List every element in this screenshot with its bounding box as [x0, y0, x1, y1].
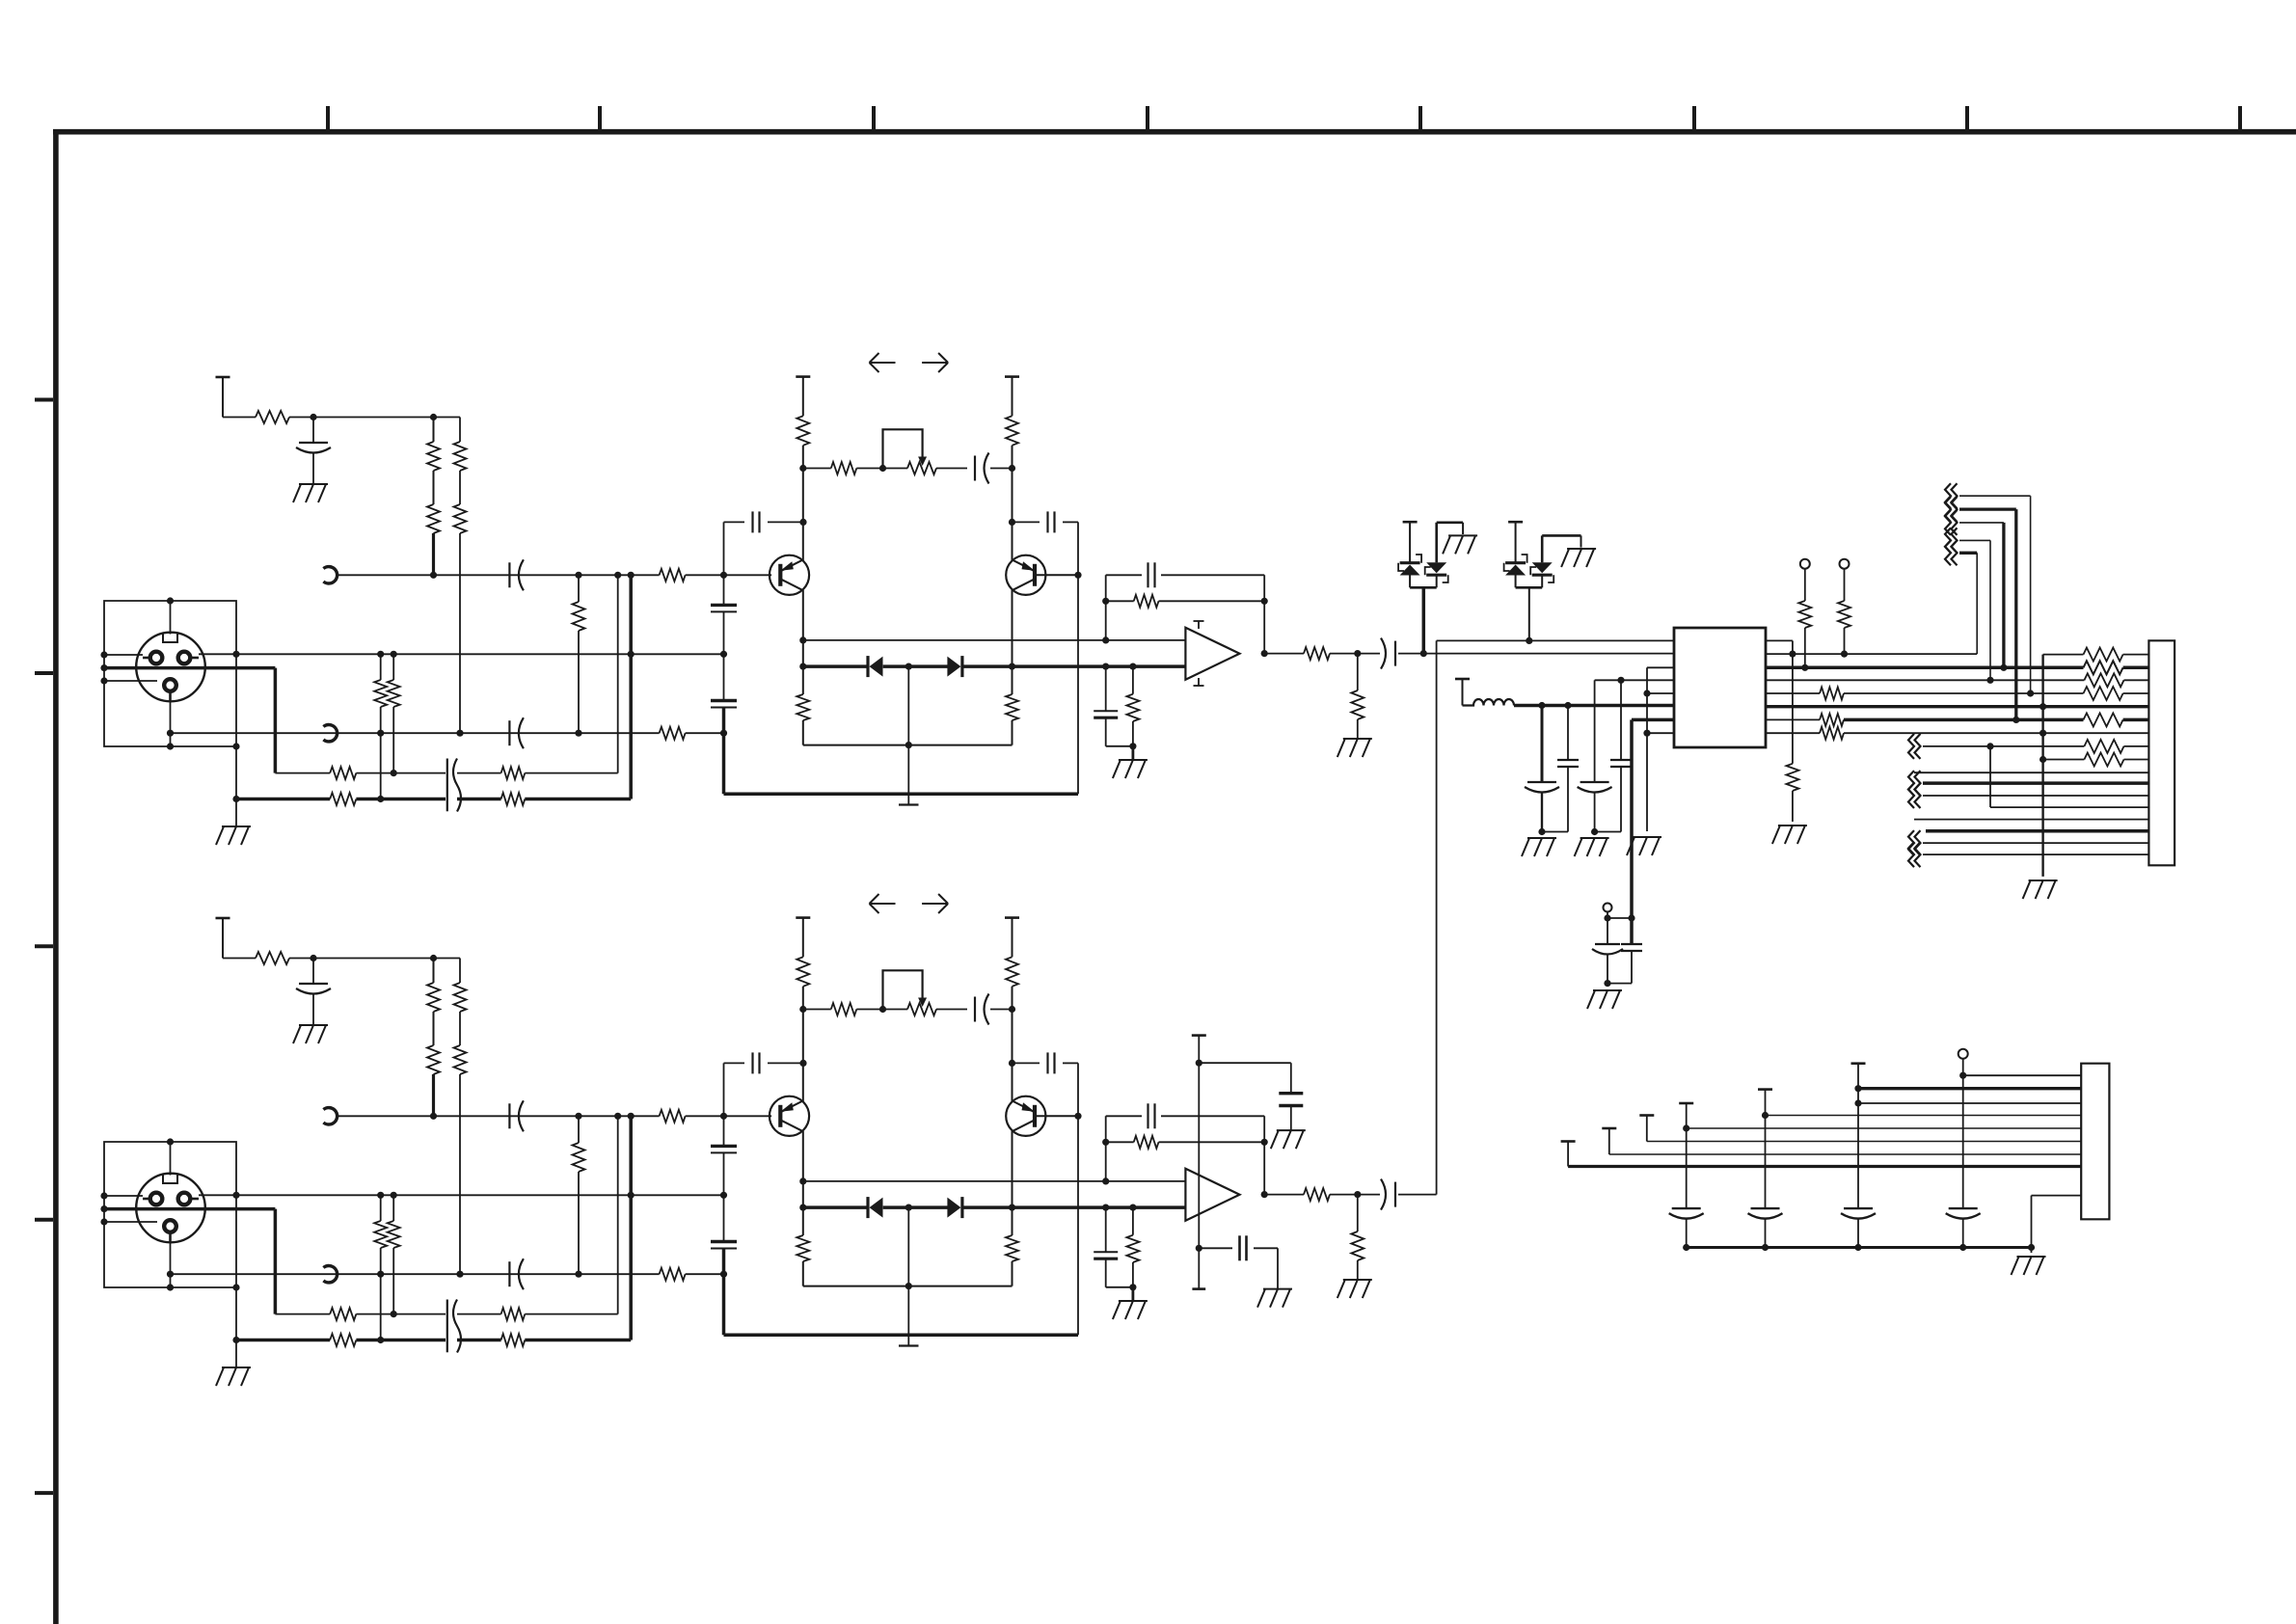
- wire out a (channel 1): [1264, 653, 1304, 655]
- resistor R-rowD-1 (channel 1): [330, 793, 356, 805]
- wire row705 connector: [2124, 679, 2149, 681]
- junction Q2 diode row (channel 2): [1009, 1204, 1015, 1211]
- wire row C right (channel 1): [525, 772, 617, 774]
- wire J2-5 to bus: [1765, 1219, 1767, 1248]
- resistor R-base (channel 1): [660, 569, 686, 582]
- junction fb left collector (channel 2): [799, 1060, 806, 1067]
- junction shield row D (channel 1): [232, 796, 239, 802]
- wire diode row c (thick) (channel 2): [962, 1205, 1106, 1209]
- wire TP3 link: [1607, 917, 1632, 919]
- offpage chevron top-right 2: [1945, 497, 1958, 522]
- capacitor C-J2-tp (polarized): [1946, 1208, 1981, 1219]
- wire opamp minus row (thick) (channel 1): [1106, 664, 1186, 668]
- junction fb res right (channel 2): [1261, 1139, 1268, 1146]
- XLR notch (channel 1): [163, 635, 177, 643]
- junction cold row phantom (channel 2): [456, 1271, 463, 1278]
- supply T J2-2: [1602, 1127, 1616, 1130]
- wire diff bottom rail (thick) (channel 2): [724, 1333, 1079, 1337]
- wire phantom R chain a (channel 2): [433, 959, 435, 984]
- capacitor C-sup1 (polarized): [1525, 782, 1559, 793]
- wire phantom node (channel 1): [289, 417, 460, 419]
- wire trim row c (channel 1): [936, 468, 967, 470]
- wire cold row left (channel 1): [171, 732, 660, 734]
- resistor R-fb (channel 1): [1134, 595, 1159, 608]
- frame ruler tick left 5: [35, 1491, 53, 1495]
- wire trim row b (channel 1): [856, 468, 907, 470]
- wire TP2 leg a: [1844, 569, 1846, 601]
- wire J2 row 4: [1687, 1127, 2082, 1129]
- capacitor C-dual curved plate (channel 2): [453, 1300, 461, 1353]
- wire J2-3 vert: [1646, 1116, 1648, 1142]
- wire bias join (channel 2): [1106, 1286, 1133, 1288]
- wire J2 gnd vert: [2031, 1196, 2033, 1253]
- wire bias res b (channel 1): [1132, 721, 1134, 746]
- transistor Q2 (channel 1): [1006, 555, 1045, 595]
- junction pulldown row: [1789, 651, 1796, 658]
- junction pin1 box edge (channel 1): [100, 651, 107, 658]
- wire J2 gnd stub row: [2032, 1195, 2082, 1197]
- wire row 719 b: [1844, 692, 2084, 694]
- XLR pin2 stub (channel 2): [190, 1198, 199, 1201]
- junction base row capchain (channel 1): [720, 572, 727, 579]
- wire out b (channel 2): [1330, 1194, 1380, 1196]
- junction TP3 b: [1628, 914, 1634, 921]
- wire J2-4 to bus: [1686, 1219, 1688, 1248]
- wire Q2 base (channel 1): [1035, 574, 1078, 576]
- junction shield row D (channel 2): [232, 1337, 239, 1343]
- capacitor C-dec1 (opamp2): [1279, 1094, 1303, 1106]
- wire opamp2 vplus branch drop: [1290, 1063, 1292, 1094]
- wire chevron 2 horiz: [1959, 507, 2016, 510]
- wire pulldown gnd: [1792, 791, 1794, 822]
- wire diode mid drop (channel 1): [907, 666, 909, 745]
- tail T terminator (channel 2): [899, 1344, 919, 1346]
- wire fb top row (channel 2): [1106, 1115, 1142, 1117]
- wire row 849: [1914, 819, 2148, 821]
- wire supply left a (channel 2): [802, 918, 804, 958]
- wire pin2 to hot row (channel 1): [199, 653, 236, 655]
- wire row 886: [1923, 853, 2148, 855]
- dual diode clamp D3 package: [1398, 522, 1463, 587]
- op-amp U1 (channel 2): [1185, 1169, 1239, 1221]
- trimpot VR element (channel 2): [907, 1003, 936, 1015]
- offpage chevron row825: [1908, 783, 1921, 808]
- capacitor C-out )| (channel 2): [1381, 1179, 1395, 1210]
- wire row 746 b (thick): [1844, 718, 2084, 722]
- capacitor C-in-upper |( (channel 1): [509, 559, 524, 590]
- junction pin3 bottom edge (channel 1): [167, 743, 174, 749]
- XLR pin1 stub (channel 2): [143, 1198, 150, 1201]
- capacitor C-sup3 (polarized): [1578, 782, 1612, 793]
- resistor R-e1 (channel 1): [797, 694, 809, 720]
- wire supply left b (channel 1): [802, 446, 804, 469]
- wire pin3 row (channel 2): [104, 1221, 157, 1223]
- frame ruler tick top 8: [2238, 106, 2242, 129]
- wire opamp minus row (thick) (channel 2): [1106, 1205, 1186, 1209]
- resistor R-near-760: [1820, 727, 1844, 740]
- wire ch2 riser: [1436, 640, 1438, 1194]
- wire J2-6 to bus: [1857, 1219, 1859, 1248]
- wire trim row d (channel 1): [990, 468, 1013, 470]
- ground sub: [1587, 990, 1622, 1009]
- wire cap4 join: [1595, 831, 1621, 833]
- resistor R-near-746: [1820, 714, 1844, 726]
- wire base row right (channel 1): [686, 574, 772, 576]
- wire bias gnd (channel 2): [1132, 1287, 1135, 1301]
- junction base row r600 (channel 2): [575, 1113, 581, 1120]
- wire TP3 leg: [1607, 912, 1608, 945]
- wire cap to gnd (channel 2): [312, 994, 314, 1025]
- resistor R-rowC-2 (channel 2): [501, 1308, 526, 1320]
- wire IC gnd pin row b: [1647, 692, 1674, 694]
- wire Q1 collector (channel 1): [802, 469, 804, 561]
- offpage chevron top-right 4: [1945, 528, 1958, 553]
- junction base row phantom (channel 1): [430, 572, 437, 579]
- trimpot VR arrow (channel 2): [918, 998, 927, 1008]
- wire row774 connector: [2124, 745, 2149, 747]
- supply T J2-6: [1851, 1062, 1866, 1065]
- trimpot VR element (channel 1): [907, 462, 936, 474]
- wire row787 connector: [2124, 759, 2149, 761]
- junction bias bottom (channel 2): [1129, 1284, 1136, 1290]
- junction Rin a rowD (channel 1): [377, 796, 384, 802]
- resistor R-cold (channel 2): [660, 1268, 686, 1281]
- wire J2 row tp: [1963, 1074, 2082, 1076]
- resistor R-ph2a (channel 1): [454, 442, 467, 471]
- wire chevron 4 horiz: [1959, 539, 1990, 541]
- wire phantom R bot b (channel 1): [459, 533, 461, 733]
- wire v654 (thick) (channel 1): [629, 575, 633, 798]
- frame ruler tick top 3: [872, 106, 876, 129]
- capacitor C-q1 upper (channel 1): [711, 605, 737, 611]
- wire bias cap a (channel 1): [1105, 666, 1107, 711]
- testpoint TP4: [1958, 1049, 1968, 1059]
- adjust arrow left (channel 1): [870, 353, 896, 372]
- junction row719 chev: [2027, 690, 2034, 696]
- junction Q1 out b (channel 2): [799, 1204, 806, 1211]
- wire row D right (thick) (channel 1): [525, 798, 631, 801]
- wire opamp2 Vplus: [1198, 1036, 1200, 1249]
- wire phantom R chain a (channel 1): [433, 418, 435, 443]
- junction pin3 box edge (channel 2): [100, 1218, 107, 1225]
- wire cold row right (channel 2): [686, 1273, 724, 1275]
- resistor R-rowD-2 (channel 1): [501, 793, 526, 805]
- XLR pin3 stub (channel 1): [169, 691, 172, 701]
- resistor R-phantom-feed (channel 2): [256, 952, 289, 964]
- wire row719 connector: [2123, 692, 2149, 694]
- junction tail mid (channel 1): [905, 742, 912, 748]
- resistor R-rowC-1 (channel 2): [330, 1308, 356, 1320]
- junction phantom node (channel 2): [310, 955, 316, 961]
- wire IC gnd vertical: [1646, 667, 1648, 831]
- sheet border frame (left edge): [53, 129, 59, 1624]
- junction coll left (channel 2): [799, 1006, 806, 1013]
- junction bus 787: [2039, 756, 2046, 763]
- supply T opamp2 bottom: [1192, 1248, 1205, 1288]
- resistor R-bias (channel 1): [1126, 694, 1139, 721]
- XLR pin 3 (channel 1): [164, 679, 176, 691]
- junction base row r641 (channel 2): [614, 1113, 621, 1120]
- junction Q1 out a (channel 2): [799, 1177, 806, 1184]
- junction tail mid (channel 2): [905, 1283, 912, 1289]
- wire base row left (channel 1): [338, 574, 660, 576]
- wire TP1 leg b: [1804, 628, 1806, 667]
- wire fb right b (channel 1): [1063, 521, 1078, 523]
- wire Q1 emitter (channel 2): [802, 1131, 804, 1235]
- wire row C mid2 (channel 2): [457, 1313, 501, 1315]
- diode D2 (right) (channel 2): [947, 1197, 962, 1218]
- wire shunt b (channel 2): [1357, 1260, 1359, 1280]
- junction J2 gnd: [2028, 1244, 2035, 1251]
- resistor R-coll-left (channel 2): [797, 957, 809, 987]
- XLR pin1 stub (channel 1): [143, 657, 150, 660]
- junction bias cap (channel 1): [1102, 663, 1109, 670]
- resistor R-out (channel 1): [1304, 647, 1330, 660]
- wire tail drop (channel 2): [907, 1286, 909, 1346]
- wire Q2 emitter (channel 2): [1012, 1131, 1013, 1235]
- wire sub join a: [1607, 955, 1608, 984]
- wire pin3 drop (channel 2): [170, 1241, 172, 1287]
- wire J2-5 vert: [1765, 1090, 1767, 1209]
- junction coll right (channel 2): [1009, 1006, 1015, 1013]
- junction pin3 bottom edge (channel 2): [167, 1284, 174, 1290]
- capacitor C-dec2 (opamp2): [1240, 1235, 1247, 1260]
- wire diode mid drop (channel 2): [907, 1207, 909, 1286]
- XLR pin 2 (channel 1): [178, 652, 191, 664]
- wire chevron 2 vert: [2014, 509, 2017, 719]
- resistor R-coll-left (channel 1): [797, 416, 809, 446]
- wire tail drop (channel 1): [907, 745, 909, 805]
- wire J2 row 1: [1568, 1165, 2081, 1168]
- dual diode clamp D4 package: [1504, 522, 1581, 587]
- junction box bottom right (channel 2): [232, 1284, 239, 1290]
- ground XLR shield (channel 1): [216, 826, 251, 845]
- junction pin2 box edge (channel 1): [100, 664, 107, 671]
- wire fb res row b (channel 1): [1159, 600, 1265, 602]
- wire Q2 collector (channel 1): [1012, 469, 1013, 561]
- capacitor C-fb-right (channel 2): [1048, 1052, 1055, 1073]
- capacitor C-dual curved plate (channel 1): [453, 759, 461, 812]
- transistor Q1 (channel 2): [770, 1096, 809, 1136]
- wire pin3 drop (channel 1): [170, 700, 172, 746]
- capacitor C-J2-4 (polarized): [1669, 1208, 1704, 1219]
- wire fb res row a (channel 1): [1106, 600, 1134, 602]
- op-amp supply stub top (channel 1): [1194, 621, 1204, 629]
- wire diff bottom rail (thick) (channel 1): [724, 792, 1079, 796]
- resistor R-bias (channel 2): [1126, 1235, 1139, 1262]
- junction bias res (channel 1): [1129, 663, 1136, 670]
- wire conn bus row (to R): [2043, 654, 2084, 656]
- junction cold row capchain (channel 1): [720, 730, 727, 737]
- junction TP4 bus: [1959, 1244, 1966, 1251]
- wire Q2 base (channel 2): [1035, 1115, 1078, 1117]
- wire dec2 to gnd corner: [1254, 1248, 1278, 1288]
- wire row D mid2 (thick) (channel 2): [457, 1339, 501, 1342]
- wire hot row (pin1 net) (channel 2): [236, 1194, 724, 1196]
- wire row 732 (thick): [1766, 705, 2148, 708]
- junction diode mid (channel 2): [905, 1204, 912, 1211]
- ground supply caps 1: [1522, 838, 1556, 856]
- junction right loop base (channel 1): [1074, 572, 1081, 579]
- wire IC gnd pin row c: [1647, 732, 1674, 734]
- wire row746 connector (thick): [2123, 718, 2149, 722]
- wire bias res a (channel 1): [1132, 666, 1134, 694]
- junction cold row pin3 (channel 1): [167, 730, 174, 737]
- wire IC pin row 746 (thick): [1632, 718, 1674, 722]
- junction cold row capchain (channel 2): [720, 1271, 727, 1278]
- resistor R-tp2: [1838, 601, 1850, 628]
- ground connector bus: [2023, 880, 2058, 899]
- resistor R-in-a (channel 1): [374, 680, 387, 707]
- adjust arrow right (channel 2): [922, 894, 948, 913]
- junction row732 bus: [2039, 703, 2046, 710]
- wire IC pulldown vert: [1792, 640, 1794, 763]
- capacitor C-J2-6 (polarized): [1841, 1208, 1876, 1219]
- wire trim row d (channel 2): [990, 1009, 1013, 1011]
- wire row 825: [1923, 795, 2148, 797]
- wire pin3 row (channel 1): [104, 680, 157, 682]
- wire cap4 down: [1620, 767, 1622, 832]
- wire IC 746 drop (thick): [1630, 719, 1634, 944]
- junction fb right collector (channel 2): [1009, 1060, 1015, 1067]
- wire cap1 gnd: [1541, 793, 1543, 832]
- wire Q1 tail (channel 2): [802, 1261, 804, 1286]
- wire drop 774-837: [1989, 746, 1991, 807]
- wire hot row (pin1 net) (channel 1): [236, 653, 724, 655]
- wire fb up left (channel 2): [1105, 1116, 1107, 1181]
- wire row D (thick) (channel 1): [236, 798, 330, 801]
- supply T J2-1: [1561, 1140, 1576, 1143]
- junction cold row pin3 (channel 2): [167, 1271, 174, 1278]
- ground out shunt (channel 1): [1337, 739, 1372, 757]
- capacitor C-trim |( (channel 2): [975, 994, 989, 1025]
- wire fb res row b (channel 2): [1159, 1141, 1265, 1143]
- supply T opamp2 top: [1192, 1034, 1206, 1037]
- wire phantom R bot a (thick) (channel 2): [432, 1074, 435, 1116]
- resistor R-600 (channel 2): [573, 1143, 585, 1172]
- capacitor C-dual tall plate (channel 1): [446, 759, 448, 812]
- wire row 862 (thick): [1926, 829, 2148, 833]
- offpage chevron row886: [1908, 842, 1921, 867]
- wire TP2 leg b: [1844, 628, 1846, 654]
- junction pin3 box edge (channel 1): [100, 677, 107, 684]
- wire pin1 row (channel 2): [104, 1195, 143, 1197]
- resistor R-e2 (channel 2): [1006, 1235, 1018, 1261]
- contact jack lower (channel 1): [323, 725, 337, 742]
- wire Rin a bot (channel 1): [380, 707, 382, 799]
- wire row D mid (thick) (channel 1): [356, 798, 446, 801]
- junction phantom node (channel 1): [310, 414, 316, 420]
- wire cap1 drop (thick): [1541, 706, 1544, 783]
- capacitor C-phantom (polarized) (channel 1): [296, 443, 331, 453]
- wire bias cap b (channel 2): [1105, 1259, 1107, 1287]
- offpage chevron row874: [1908, 830, 1921, 855]
- wire clamp2 output: [1528, 587, 1530, 640]
- resistor R-ph1b (channel 1): [427, 504, 440, 533]
- junction Rin a rowD (channel 2): [377, 1337, 384, 1343]
- wire fb res row a (channel 2): [1106, 1141, 1134, 1143]
- junction J2-4: [1683, 1124, 1689, 1131]
- junction hot row midcap (channel 1): [628, 651, 635, 658]
- junction hot row box edge (channel 2): [232, 1192, 239, 1199]
- wire chevron 3 vert: [2002, 523, 2005, 667]
- wire cap drop (channel 1): [312, 418, 314, 444]
- XLR shield box (channel 1): [104, 601, 236, 746]
- resistor R-conn-705: [2084, 673, 2123, 687]
- offpage chevron row812: [1908, 771, 1921, 796]
- wire J2-2 vert: [1608, 1128, 1610, 1154]
- supply T right (channel 1): [1005, 375, 1019, 378]
- wire J2 row 1144: [1858, 1102, 2081, 1104]
- wire row C mid (channel 2): [356, 1313, 446, 1315]
- wire chevron 1 horiz: [1959, 495, 2031, 497]
- junction Q2 diode row (channel 1): [1009, 663, 1015, 670]
- wire shunt b (channel 1): [1357, 719, 1359, 739]
- resistor R-conn-692: [2084, 661, 2123, 674]
- wire right loop vertical (channel 2): [1077, 1063, 1079, 1335]
- supply T J2-3: [1639, 1114, 1654, 1117]
- XLR shield box (channel 2): [104, 1142, 236, 1287]
- XLR pin 3 (channel 2): [164, 1220, 176, 1232]
- junction Rin b rowC (channel 1): [391, 770, 397, 776]
- frame ruler tick top 5: [1418, 106, 1422, 129]
- junction bus cap2: [1564, 702, 1571, 709]
- junction hot row Rin a (channel 1): [377, 651, 384, 658]
- resistor R-near-719: [1820, 688, 1844, 700]
- offpage chevron row774: [1908, 734, 1921, 759]
- wire Rin a bot (channel 2): [380, 1248, 382, 1340]
- junction phantom node b (channel 2): [430, 955, 437, 961]
- adjust arrow right (channel 1): [922, 353, 948, 372]
- junction cold row rpair (channel 1): [377, 730, 384, 737]
- resistor R-shunt (channel 2): [1351, 1232, 1364, 1260]
- wire phantom R bot a (thick) (channel 1): [432, 533, 435, 575]
- ground dec2: [1257, 1289, 1292, 1308]
- resistor R-conn-678: [2084, 648, 2123, 662]
- wire cap drop (channel 2): [312, 959, 314, 985]
- junction row760 bus: [2039, 730, 2046, 737]
- capacitor C-fb-opamp (channel 1): [1148, 562, 1155, 587]
- wire cap2 drop: [1567, 706, 1569, 761]
- power terminal T (channel 1): [216, 377, 230, 418]
- XLR body circle (channel 1): [136, 633, 205, 702]
- junction base row r654 (channel 2): [628, 1113, 635, 1120]
- junction base row capchain (channel 2): [720, 1113, 727, 1120]
- wire box to ground (channel 2): [235, 1287, 237, 1367]
- wire J2-4 vert: [1686, 1103, 1688, 1208]
- wire bias res b (channel 2): [1132, 1262, 1134, 1287]
- wire IC pulldown stub: [1766, 639, 1793, 641]
- wire dec1 gnd: [1290, 1106, 1292, 1131]
- wire phantom R mid b (channel 2): [459, 1012, 461, 1045]
- junction J2-5: [1762, 1112, 1769, 1119]
- wire phantom R chain b (channel 1): [459, 418, 461, 443]
- wire row D mid (thick) (channel 2): [356, 1339, 446, 1342]
- testpoint TP2: [1840, 559, 1850, 569]
- wire row 774: [1923, 745, 2084, 747]
- junction fb res left (channel 2): [1102, 1139, 1109, 1146]
- inductor L1 input T: [1455, 679, 1470, 706]
- wire notch to box top (channel 1): [170, 601, 172, 635]
- wire supply left b (channel 2): [802, 987, 804, 1010]
- junction sub join: [1604, 980, 1610, 987]
- wire Q2 tail (channel 1): [1012, 720, 1013, 745]
- diode D1 (left) (channel 1): [868, 656, 883, 677]
- junction bias bottom (channel 1): [1129, 743, 1136, 749]
- junction pin1 box edge (channel 2): [100, 1192, 107, 1199]
- junction box top (channel 2): [167, 1138, 174, 1145]
- wire capchain top (channel 2): [723, 1063, 725, 1146]
